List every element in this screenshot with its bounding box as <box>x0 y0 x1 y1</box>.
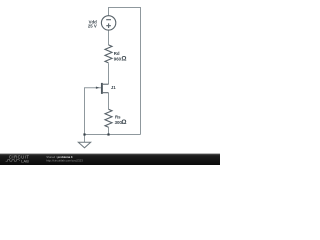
svg-text:http://circuitlab.com/cxu2323: http://circuitlab.com/cxu2323 <box>46 159 83 163</box>
svg-text:25 V: 25 V <box>88 24 97 29</box>
svg-text:LAB: LAB <box>21 159 29 163</box>
svg-text:Rs: Rs <box>115 115 121 120</box>
svg-text:Ω: Ω <box>121 119 126 126</box>
svg-text:Ω: Ω <box>121 56 126 63</box>
svg-text:J1: J1 <box>111 85 116 90</box>
